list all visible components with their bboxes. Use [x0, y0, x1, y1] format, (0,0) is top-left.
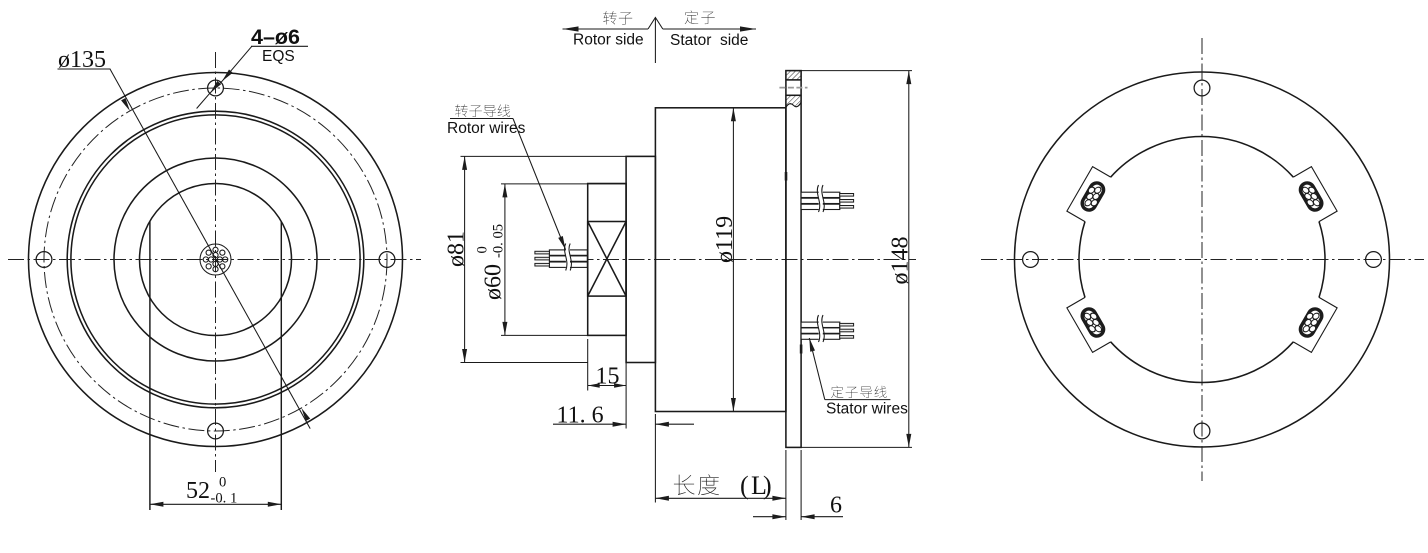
svg-text:0: 0	[475, 246, 491, 253]
left view body circle inner	[71, 115, 360, 404]
stator wire break marks lower	[817, 315, 824, 342]
slot right edge / extension line	[280, 222, 282, 511]
svg-text:11. 6: 11. 6	[557, 403, 604, 429]
left view body circle Ø119 outer	[67, 111, 364, 408]
svg-text:ø60: ø60	[481, 264, 507, 300]
svg-text:Stator wires: Stator wires	[826, 401, 908, 418]
52 dim arrow right	[268, 502, 282, 507]
Ø148 arrow top	[906, 71, 911, 85]
L arrow right	[772, 496, 786, 501]
flange hole edge lower	[786, 94, 801, 96]
rotor wire bundle	[535, 250, 588, 268]
6 dimension line left	[753, 516, 786, 518]
L arrow left	[655, 496, 669, 501]
Ø81 extension line top	[461, 155, 657, 157]
4-Ø6 leader tail	[197, 93, 211, 109]
52 dim arrow left	[150, 502, 164, 507]
right view outer circle Ø148	[1015, 72, 1390, 447]
middle view horizontal centerline	[552, 259, 916, 261]
tick on flange left edge	[785, 172, 788, 181]
15 arrow right	[614, 383, 626, 387]
Ø60 extension line top	[501, 183, 626, 185]
divider vertical line	[654, 18, 656, 64]
label zhuanzi-daoxian (rotor wires CN)	[455, 104, 468, 117]
connector lower-left	[1067, 297, 1112, 353]
Ø81 extension line bottom	[461, 362, 588, 364]
Ø135 dimension line diagonal	[110, 69, 310, 429]
Ø60 arrow bottom	[502, 322, 507, 336]
left view outer flange circle Ø148	[29, 73, 403, 447]
label changdu (length)	[674, 475, 695, 495]
left view rotor circle Ø81	[114, 158, 317, 361]
bearing box	[588, 222, 626, 297]
stator wires leader	[809, 338, 825, 400]
left view bolt circle Ø135 (dash-dot)	[44, 88, 387, 431]
Ø60 hub column	[588, 184, 626, 336]
stator wire bundle lower	[801, 322, 854, 339]
connector upper-right	[1292, 167, 1337, 223]
center wire bundle cluster	[200, 244, 231, 275]
svg-text:6: 6	[830, 493, 842, 519]
15 dimension line	[588, 385, 626, 387]
4-Ø6 leader segment 2	[210, 81, 222, 92]
stator wire break marks upper	[817, 185, 824, 212]
Ø119 dimension line	[732, 108, 734, 412]
connector upper-left	[1067, 167, 1112, 223]
inner circle arc bottom	[1111, 342, 1294, 383]
stator side arrow	[740, 26, 756, 31]
svg-text:-0. 05: -0. 05	[491, 224, 507, 258]
svg-text:Stator side: Stator side	[670, 32, 748, 49]
inner circle arc left	[1079, 222, 1085, 298]
svg-text:Rotor side: Rotor side	[573, 32, 644, 49]
Ø60 extension line bottom	[501, 334, 626, 336]
Ø81 rotor column	[626, 156, 655, 362]
main body Ø119	[655, 108, 786, 412]
6 extension line right	[800, 450, 802, 520]
right view bolt hole left	[1023, 252, 1039, 268]
52 dimension line	[150, 503, 281, 505]
flange hole lower hatch	[786, 95, 801, 107]
rotor side arrow	[563, 26, 579, 31]
label zhuanzi (rotor)	[603, 11, 616, 24]
bolt hole Ø6 right	[379, 252, 395, 268]
11.6 dimension line right	[655, 423, 694, 425]
4-Ø6 leader segment 1	[222, 46, 252, 81]
bearing X diagonal 2	[588, 222, 626, 297]
rotor wires leader shelf	[450, 118, 513, 120]
flange Ø148	[786, 71, 801, 448]
bearing X diagonal 1	[588, 222, 626, 297]
svg-text:(: (	[740, 471, 749, 500]
6 dimension line right	[801, 516, 843, 518]
4-Ø6 leader arrow 1	[222, 70, 233, 82]
rotor-side arrow line	[563, 28, 649, 30]
inner circle arc top	[1111, 137, 1294, 178]
bolt hole Ø6 top	[208, 80, 224, 96]
rotor wire break gap	[566, 249, 570, 270]
Ø60 arrow top	[502, 184, 507, 198]
flange hole upper hatch	[786, 71, 801, 80]
right view bolt hole bottom	[1194, 423, 1210, 439]
divider peak	[648, 18, 663, 30]
6 arrow left	[772, 514, 786, 519]
svg-text:-0. 1: -0. 1	[211, 491, 238, 507]
Ø81 dimension line	[464, 156, 466, 362]
right view horizontal centerline	[981, 259, 1424, 261]
flange hole centerline (gray)	[779, 87, 807, 89]
11.6 arrow 2	[655, 422, 669, 427]
Ø135 label underline	[58, 68, 111, 70]
Ø148 dimension line	[908, 71, 910, 448]
stator wires leader arrow	[809, 338, 815, 352]
rotor wire break marks	[564, 244, 571, 271]
right view bolt hole top	[1194, 80, 1210, 96]
Ø119 arrow bottom	[731, 398, 736, 412]
Ø135 arrow lower	[301, 408, 310, 421]
Ø148 extension line bottom	[801, 446, 912, 448]
right view bolt hole right	[1366, 252, 1382, 268]
stator wires leader shelf	[825, 399, 891, 401]
tick on flange right edge	[800, 345, 803, 354]
inner circle arc right	[1319, 222, 1325, 298]
6 arrow right	[801, 514, 815, 519]
svg-text:ø148: ø148	[888, 237, 914, 285]
flange hole break wavy	[786, 102, 801, 107]
svg-text:0: 0	[219, 475, 226, 491]
stator wire break gap lower	[819, 321, 823, 341]
stator wire break gap upper	[819, 191, 823, 210]
label dingzi (stator)	[685, 11, 699, 25]
Ø81 arrow top	[462, 156, 467, 170]
right view vertical centerline	[1201, 38, 1203, 481]
15 arrow left	[588, 383, 600, 387]
svg-text:ø119: ø119	[712, 216, 738, 263]
Ø148 extension line top	[801, 70, 912, 72]
4-Ø6 underline	[251, 45, 308, 47]
svg-text:Rotor wires: Rotor wires	[447, 120, 526, 137]
svg-text:ø81: ø81	[444, 231, 470, 267]
rotor wires leader	[513, 119, 566, 250]
svg-text:15: 15	[596, 364, 620, 390]
svg-text:4–ø6: 4–ø6	[251, 25, 300, 49]
Ø148 arrow bottom	[906, 434, 911, 448]
11.6 extension line	[625, 339, 627, 429]
stator-side arrow line	[663, 28, 756, 30]
bolt hole Ø6 bottom	[208, 423, 224, 439]
L extension line right	[785, 450, 787, 520]
svg-text:EQS: EQS	[262, 48, 295, 65]
svg-text:52: 52	[186, 478, 210, 504]
L extension line left	[654, 414, 656, 503]
flange hole edge upper	[786, 79, 801, 81]
Ø119 arrow top	[731, 108, 736, 122]
Ø135 arrow upper	[121, 98, 130, 111]
bolt hole Ø6 left	[36, 252, 52, 268]
15 extension line	[587, 339, 589, 391]
11.6 arrow	[613, 422, 627, 427]
Ø81 arrow bottom	[462, 349, 467, 363]
label dingzi-daoxian (stator wires CN)	[831, 386, 843, 398]
L dimension line	[655, 497, 786, 499]
connector lower-right	[1292, 297, 1337, 353]
rotor wires leader arrow	[558, 236, 565, 250]
left view rotor hub circle Ø60	[140, 184, 292, 336]
slot left edge / extension line	[149, 222, 151, 511]
left view vertical centerline	[215, 52, 217, 472]
left view horizontal centerline	[8, 259, 421, 261]
stator wire bundle upper	[801, 192, 854, 209]
4-Ø6 leader arrow 2	[210, 81, 221, 93]
11.6 dimension line left	[553, 423, 626, 425]
Ø60 dimension line	[504, 184, 506, 336]
svg-text:): )	[763, 471, 772, 500]
